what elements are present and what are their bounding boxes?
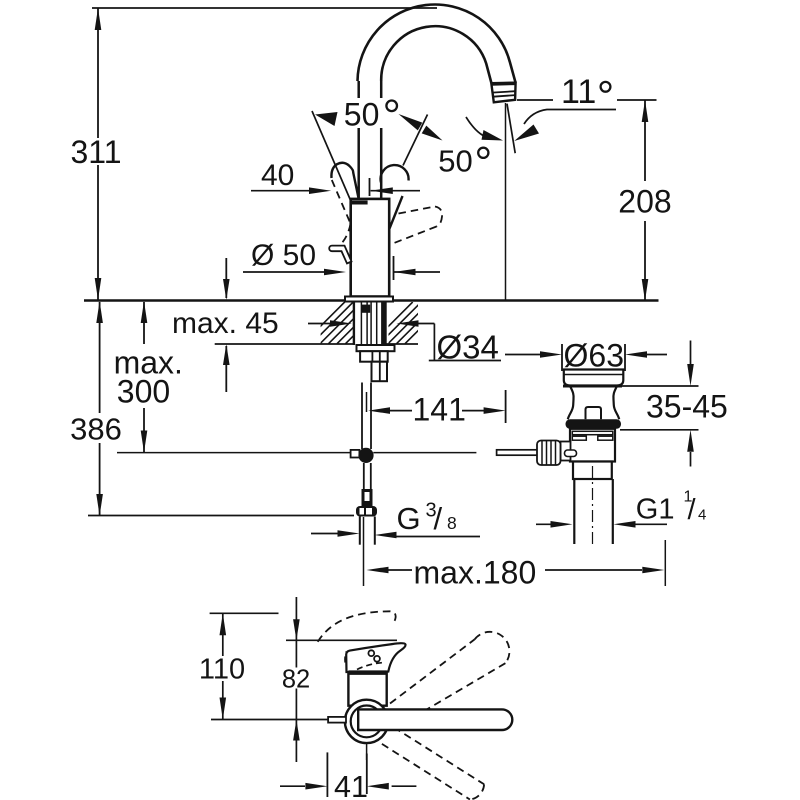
supply tube xyxy=(359,517,361,545)
hatching left block xyxy=(303,302,387,344)
drain centerline xyxy=(592,466,594,544)
ref line bottom xyxy=(211,719,329,721)
ref line top xyxy=(210,612,279,614)
svg-text:Ø 50: Ø 50 xyxy=(251,239,316,272)
svg-text:/: / xyxy=(688,494,697,526)
drain tube xyxy=(573,479,575,544)
rod to waste segment 1 xyxy=(373,452,476,454)
fin dot markers xyxy=(368,650,374,656)
faucet body xyxy=(351,199,390,297)
reference line 386 bottom xyxy=(88,515,354,517)
G3/8 arrows xyxy=(311,533,350,535)
waste top flange xyxy=(564,370,624,386)
waste washer band xyxy=(566,419,622,429)
waste neck xyxy=(568,387,574,419)
dimension 40 xyxy=(251,190,312,192)
G1 1/4 arrows xyxy=(536,523,563,525)
deck bottom reference line (right) xyxy=(385,343,418,345)
svg-text:35-45: 35-45 xyxy=(646,389,728,425)
dimension 386 line xyxy=(99,302,101,413)
11 deg leader lines xyxy=(517,99,553,101)
waste valve body xyxy=(570,429,615,462)
G3/8 nut xyxy=(356,506,377,517)
center tick below circle xyxy=(366,743,368,760)
fin inner dashed arc xyxy=(357,663,384,670)
outlet vertical extension line xyxy=(505,103,507,300)
dimension 35-45 xyxy=(620,385,699,387)
dimension max.300 line xyxy=(143,302,145,344)
dimension 110 xyxy=(222,613,224,656)
svg-text:4: 4 xyxy=(698,507,706,524)
dashed swung spout lower xyxy=(382,727,484,799)
rod boss xyxy=(561,442,571,461)
svg-text:208: 208 xyxy=(618,184,671,220)
svg-text:300: 300 xyxy=(117,374,170,410)
base flange xyxy=(345,297,393,302)
lift rod below deck xyxy=(361,383,363,450)
hatching right block xyxy=(371,302,447,344)
rod clevis xyxy=(351,450,360,458)
plan body xyxy=(348,672,386,705)
lever capsule solid (upright) xyxy=(331,163,358,198)
svg-text:311: 311 xyxy=(70,134,121,170)
label 50deg upper xyxy=(341,98,403,128)
dimension 41 xyxy=(326,752,328,797)
pivot dome arc xyxy=(381,165,409,182)
svg-text:110: 110 xyxy=(199,653,245,685)
under-deck washer xyxy=(357,345,395,351)
lift rod knob xyxy=(329,246,351,264)
spout nose / aerator xyxy=(491,83,515,103)
svg-text:Ø34: Ø34 xyxy=(437,329,499,366)
svg-text:max. 45: max. 45 xyxy=(172,307,279,340)
neck tab xyxy=(586,407,602,419)
outlet axis 11 deg line xyxy=(507,104,515,154)
svg-text:40: 40 xyxy=(261,159,294,192)
svg-text:/: / xyxy=(434,501,443,536)
rod ball joint xyxy=(358,448,373,463)
svg-text:max.180: max.180 xyxy=(414,555,537,591)
svg-text:141: 141 xyxy=(413,392,466,428)
knurled nut xyxy=(537,441,561,466)
rod stub (plan) xyxy=(328,717,346,723)
spout vertical tube xyxy=(357,81,360,98)
svg-text:50: 50 xyxy=(344,96,380,132)
dimension 141 xyxy=(368,407,390,414)
lever angle leg left xyxy=(312,111,350,200)
dimension max.45 arrows xyxy=(225,258,227,298)
dimension diameter 63 xyxy=(505,354,553,356)
svg-text:386: 386 xyxy=(70,412,122,447)
gooseneck outer arc xyxy=(358,5,516,83)
shank below deck xyxy=(353,302,355,345)
svg-text:82: 82 xyxy=(282,666,310,694)
dimension 311 line xyxy=(97,8,99,138)
svg-text:8: 8 xyxy=(447,513,457,533)
under-deck nut xyxy=(360,351,388,362)
plan circles xyxy=(345,700,388,743)
lever capsule dashed left edge xyxy=(332,180,351,224)
dimension diameter 34 xyxy=(308,323,339,325)
dashed swung spout upper xyxy=(390,632,509,724)
top reference line xyxy=(92,7,437,9)
lever fin (plan) xyxy=(346,643,405,672)
G3/8 fitting block xyxy=(362,489,373,507)
dimension max.180 xyxy=(363,517,365,586)
svg-text:G1: G1 xyxy=(636,494,675,526)
lever capsule dashed right (open position) xyxy=(392,207,443,245)
svg-text:Ø63: Ø63 xyxy=(564,338,624,374)
pop-up rod horizontal / max300 reference line xyxy=(117,452,351,454)
spout capsule (plan, solid) xyxy=(358,709,512,730)
body top dark bar xyxy=(351,201,368,205)
lever angle leg right xyxy=(403,115,428,166)
11 deg left arc + arrow xyxy=(466,117,483,136)
svg-text:11: 11 xyxy=(561,73,596,111)
rod link pin xyxy=(565,450,577,457)
lever neutral edge xyxy=(390,196,403,229)
dimension 208 xyxy=(644,100,646,181)
rod to waste segment 2 xyxy=(497,450,540,455)
ref line 82 top xyxy=(286,639,397,641)
svg-text:41: 41 xyxy=(334,770,368,800)
dimension 82 xyxy=(295,597,297,640)
rod lower vertical xyxy=(363,463,365,489)
deck bottom reference line (left) xyxy=(215,343,354,345)
deck line xyxy=(84,299,659,302)
dashed raised lever arc xyxy=(318,611,396,642)
gooseneck inner arc xyxy=(381,26,491,83)
svg-text:50: 50 xyxy=(438,143,472,178)
svg-text:G: G xyxy=(397,501,421,536)
